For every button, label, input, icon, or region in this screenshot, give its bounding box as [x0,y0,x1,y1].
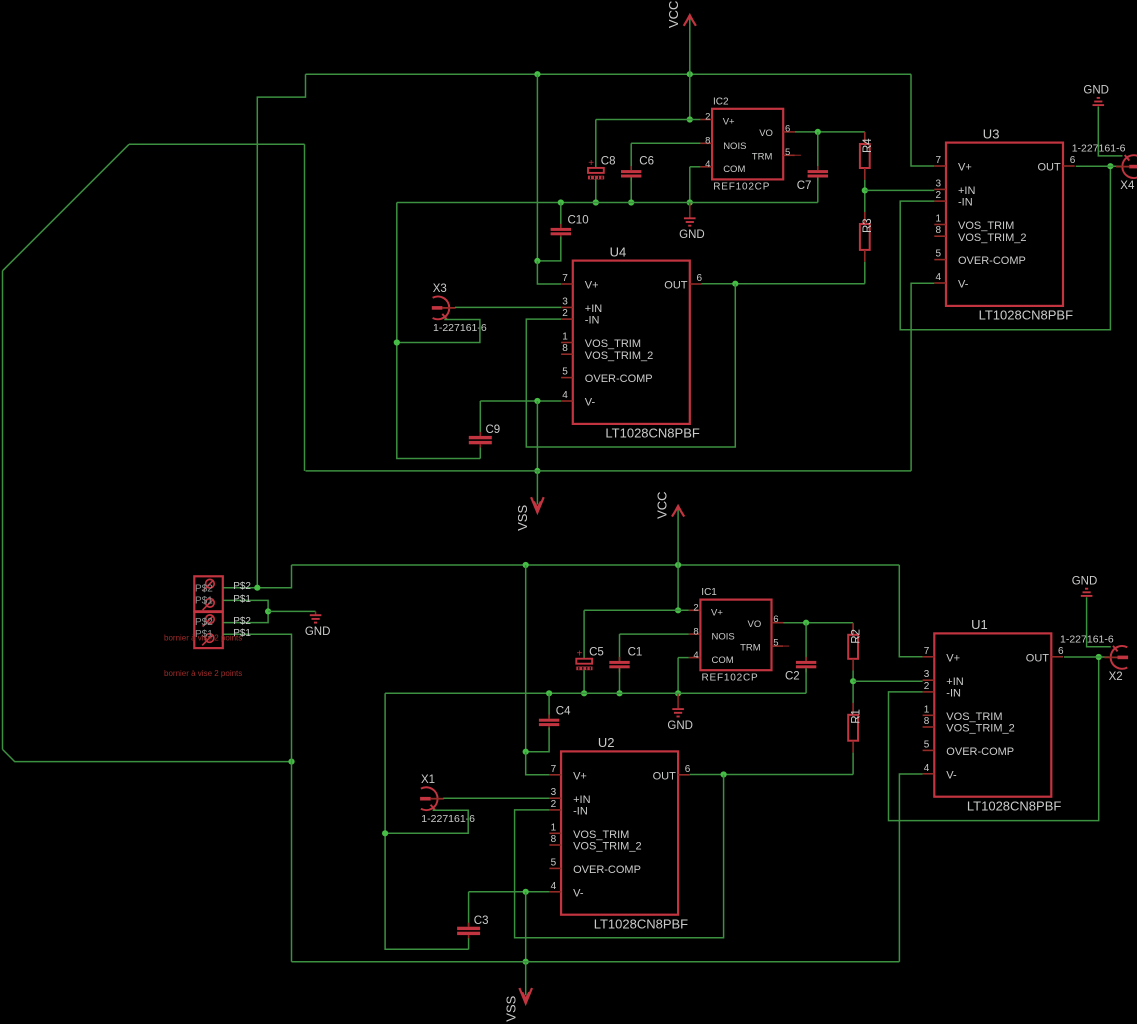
wire U4 OUT [702,283,865,285]
svg-text:NOIS: NOIS [712,632,735,643]
wire VCC rail to terminal block [257,74,305,588]
svg-text:VOS_TRIM_2: VOS_TRIM_2 [958,232,1026,244]
svg-text:R3: R3 [862,218,874,233]
svg-text:R2: R2 [850,629,862,644]
wire VO to C2 [805,623,807,661]
wire IC VO to R4 [795,131,865,133]
capacitor C6 [621,166,641,181]
capacitor C9 [469,432,492,448]
svg-text:6: 6 [773,614,778,625]
wire X3 to U4 +IN [443,797,549,799]
VCC supply symbol [684,13,696,26]
svg-text:OUT: OUT [653,770,677,782]
wire C7 to gnd bus [805,668,807,693]
resistor R3 [860,212,870,262]
wire VSS rail left edge [304,144,306,471]
wire X3 to U4 +IN [455,306,561,308]
junction shell/gnd drop [394,339,400,345]
wire VSS stem [525,962,527,996]
svg-text:2: 2 [551,799,557,810]
svg-text:OVER-COMP: OVER-COMP [958,255,1026,267]
wire NOIS to C1 [619,634,621,661]
svg-text:OUT: OUT [1037,162,1061,174]
svg-text:1-227161-6: 1-227161-6 [421,813,475,825]
svg-text:V+: V+ [723,117,735,128]
svg-text:C3: C3 [474,915,489,927]
svg-text:V+: V+ [958,162,972,174]
svg-text:8: 8 [924,716,930,727]
svg-text:X3: X3 [433,283,447,295]
junction VSS / terminal P$1 [288,759,294,765]
svg-text:V-: V- [946,769,957,781]
svg-text:P$2: P$2 [195,584,213,595]
svg-text:COM: COM [723,164,745,175]
svg-text:+IN: +IN [573,794,590,806]
svg-text:V+: V+ [711,607,723,618]
wire VCC drop [525,565,527,752]
wire VSS stem [536,471,538,505]
svg-text:U3: U3 [983,126,1000,141]
svg-text:REF102CP: REF102CP [702,672,759,683]
wire V+ to U2 pin7 [526,752,550,775]
svg-text:6: 6 [685,764,691,775]
svg-text:VOS_TRIM_2: VOS_TRIM_2 [585,350,653,362]
svg-text:GND: GND [1083,85,1109,97]
svg-text:6: 6 [697,273,703,284]
wire V- to VSS rail [536,401,538,471]
svg-text:1: 1 [924,704,930,715]
svg-text:C2: C2 [785,671,800,683]
svg-text:X2: X2 [1109,671,1123,683]
wire VCC to IC V+ [677,565,679,610]
connector X1 [420,787,444,810]
resistor R4 [860,132,870,180]
wire C8 to gnd bus [595,179,597,202]
svg-text:C5: C5 [589,647,604,659]
svg-text:X4: X4 [1120,180,1135,192]
svg-text:8: 8 [562,343,568,354]
wire U4 V- [480,400,561,402]
svg-text:2: 2 [924,681,930,692]
wire X3 shell to gnd [397,320,480,343]
wire VCC stem [677,508,679,565]
wire V- to C3 [468,892,470,927]
junction [546,690,552,696]
wire R3 to OUT rail [852,753,854,775]
wire VSS link to terminal [3,749,292,761]
svg-text:7: 7 [551,764,557,775]
resistor R2 [848,623,858,671]
svg-text:R1: R1 [850,709,862,724]
IC IC1 REF102CP voltage reference [689,600,790,671]
wire IC pin8 NOIS [620,633,689,635]
svg-text:IC2: IC2 [713,96,729,107]
ground GND (X4 shell) [1093,98,1105,105]
wire IC pin8 NOIS [631,142,700,144]
wire V+ to U4 pin7 [537,261,561,284]
wire IC pin4 COM [678,657,689,659]
VSS supply symbol [519,988,532,1003]
ground GND (X4 shell) [1081,589,1093,596]
svg-text:C6: C6 [639,156,654,168]
svg-text:-IN: -IN [946,688,961,700]
svg-text:LT1028CN8PBF: LT1028CN8PBF [979,308,1073,323]
svg-text:VCC: VCC [666,1,681,28]
junction V+ drop / C10 [523,749,529,755]
svg-text:2: 2 [936,190,942,201]
junction V- / VSS drop [523,889,529,895]
svg-text:VOS_TRIM_2: VOS_TRIM_2 [573,841,641,853]
svg-text:C8: C8 [601,156,616,168]
wire U4 V- [469,891,550,893]
capacitor C5 (polarized) [576,649,592,671]
svg-text:3: 3 [562,296,568,307]
ground GND (power entry) [310,611,322,622]
svg-text:V+: V+ [946,652,960,664]
svg-text:VSS: VSS [515,505,530,531]
svg-text:4: 4 [551,881,557,892]
svg-text:P$1: P$1 [233,594,251,605]
wire R4-R3 [852,671,854,704]
svg-text:8: 8 [693,626,698,637]
wire IC pin2 V+ [596,119,701,121]
svg-text:TRM: TRM [752,152,773,163]
junction VO / C7 [803,620,809,626]
svg-text:VO: VO [759,128,773,139]
wire VSS to bottom rail [291,762,293,962]
wire to C5 [583,610,585,658]
op-amp U2 LT1028CN8PBF [549,751,689,914]
wire R4-R3 [864,180,866,213]
wire VSS link horiz [129,143,305,145]
svg-text:LT1028CN8PBF: LT1028CN8PBF [967,799,1061,814]
svg-text:X1: X1 [421,774,435,786]
svg-text:C1: C1 [628,647,643,659]
junction [687,199,693,205]
junction divider [850,678,856,684]
wire C9 to gnd drop [468,938,470,949]
junction U3 OUT / feedback [1096,654,1102,660]
svg-text:+IN: +IN [958,185,975,197]
capacitor C2 [796,657,816,672]
wire bus to C4 [548,693,550,718]
junction [616,690,622,696]
junction [558,199,564,205]
svg-text:5: 5 [773,638,778,649]
svg-text:4: 4 [562,390,568,401]
svg-text:VOS_TRIM: VOS_TRIM [958,220,1014,232]
svg-text:C9: C9 [486,424,501,436]
svg-text:OVER-COMP: OVER-COMP [946,746,1014,758]
svg-text:4: 4 [705,159,710,170]
svg-text:+IN: +IN [946,676,963,688]
wire GND to X4 shell [1087,597,1111,646]
wire VSS rail [306,470,912,472]
svg-text:IC1: IC1 [701,587,717,598]
svg-text:1: 1 [936,214,942,225]
svg-text:P$1: P$1 [195,596,213,607]
svg-text:GND: GND [305,626,331,638]
svg-text:1: 1 [551,822,557,833]
wire R3 to OUT rail [864,262,866,284]
wire V- to VSS rail [525,892,527,962]
junction VCC rail / VCC symbol [687,71,693,77]
svg-text:4: 4 [924,763,930,774]
wire U3 OUT to X4 [1076,165,1121,167]
wire bus to C10 [560,203,562,228]
wire C10 to V+ drop [526,728,549,752]
svg-text:2: 2 [562,308,568,319]
wire P$1 to VSS [223,634,292,761]
wire U3 V- to VSS rail [899,774,922,962]
svg-text:OVER-COMP: OVER-COMP [585,373,653,385]
junction [593,199,599,205]
svg-text:P$2: P$2 [233,581,251,592]
svg-text:+IN: +IN [585,303,602,315]
svg-text:VO: VO [748,619,762,630]
svg-text:7: 7 [924,646,930,657]
svg-text:6: 6 [1070,155,1076,166]
svg-text:5: 5 [551,857,557,868]
capacitor C7 [808,166,828,181]
wire VCC top rail [306,73,912,75]
wire P$1/P$2 gnd tie [223,600,268,622]
junction IC V+ net [687,116,693,122]
junction V+ drop / C10 [534,258,540,264]
svg-text:3: 3 [551,787,557,798]
svg-text:-IN: -IN [958,197,973,209]
svg-text:NOIS: NOIS [723,141,746,152]
terminal block J2 (bornier 2 points) [194,612,223,648]
junction shell/gnd drop [382,830,388,836]
junction VCC feed [254,585,260,591]
capacitor C1 [609,657,629,672]
svg-text:C10: C10 [568,215,589,227]
connector X2 [1104,646,1128,669]
wire VCC drop [536,74,538,261]
wire to GND symbol [268,610,316,612]
svg-text:OUT: OUT [1026,652,1050,664]
svg-text:5: 5 [785,147,790,158]
wire U3 feedback loop [889,657,1099,821]
svg-text:P$1: P$1 [233,628,251,639]
wire VCC stem [689,17,691,74]
junction IC V+ net [675,607,681,613]
svg-text:8: 8 [705,136,710,147]
svg-text:bornier à vise 2 points: bornier à vise 2 points [164,669,242,678]
junction U4 feedback [732,281,738,287]
wire divider to U3 +IN [865,189,935,191]
svg-text:5: 5 [924,739,930,750]
svg-text:GND: GND [1072,575,1098,587]
junction gnd tie [265,608,271,614]
wire V- to C9 [479,401,481,436]
wire GND bus [385,692,806,694]
op-amp U1 LT1028CN8PBF [923,633,1063,796]
capacitor C8 (polarized) [588,158,604,180]
connector X3 [432,296,456,319]
svg-text:6: 6 [1058,646,1064,657]
wire VCC to IC V+ [689,74,691,119]
junction VO / C7 [815,129,821,135]
svg-text:VOS_TRIM_2: VOS_TRIM_2 [946,723,1014,735]
svg-text:V-: V- [958,279,969,291]
svg-text:COM: COM [712,655,734,666]
wire GND bus [397,202,818,204]
svg-text:GND: GND [679,229,705,241]
svg-text:8: 8 [551,834,557,845]
svg-text:C7: C7 [797,180,812,192]
wire X3 shell to gnd [385,810,468,833]
wire NOIS to C6 [630,143,632,170]
wire VCC top rail [292,564,900,566]
junction V- / VSS drop [534,398,540,404]
junction VCC rail / V+ drop [534,71,540,77]
svg-text:5: 5 [936,249,942,260]
svg-text:7: 7 [562,273,568,284]
wire C10 to V+ drop [537,237,560,261]
svg-text:V+: V+ [585,280,599,292]
op-amp U4 LT1028CN8PBF [561,261,701,424]
svg-text:U1: U1 [971,617,988,632]
wire VSS link diagonal [3,144,130,270]
wire VO to C7 [817,132,819,170]
op-amp U3 LT1028CN8PBF [934,143,1074,306]
wire C9 to gnd drop [479,448,481,459]
svg-text:LT1028CN8PBF: LT1028CN8PBF [605,426,699,441]
terminal block J1 (bornier 2 points) [194,576,223,611]
svg-text:U2: U2 [598,735,615,750]
svg-text:GND: GND [667,720,693,732]
wire C5 to gnd bus [583,670,585,693]
wire divider to U1 +IN [853,680,923,682]
svg-text:VOS_TRIM: VOS_TRIM [573,829,629,841]
svg-text:VOS_TRIM: VOS_TRIM [946,711,1002,723]
svg-text:1: 1 [562,332,568,343]
svg-text:8: 8 [936,225,942,236]
svg-text:VCC: VCC [655,491,670,518]
capacitor C10 [551,224,571,239]
svg-text:-IN: -IN [585,315,600,327]
capacitor C4 [539,715,559,730]
wire U4 OUT [690,774,853,776]
wire VCC rail to U1 V+ [899,565,922,657]
wire U3 V- to VSS rail [911,283,934,471]
svg-text:-IN: -IN [573,806,588,818]
svg-text:LT1028CN8PBF: LT1028CN8PBF [594,917,688,932]
junction divider [862,187,868,193]
svg-text:V-: V- [573,887,584,899]
wire IC pin4 COM [690,166,701,168]
wire C7 to gnd bus [817,178,819,203]
svg-text:U4: U4 [610,244,627,259]
wire VSS rail [292,961,900,963]
svg-text:REF102CP: REF102CP [713,182,770,193]
VSS supply symbol [531,497,544,512]
svg-text:R4: R4 [862,138,874,153]
wire U3 feedback loop [900,166,1110,330]
svg-text:2: 2 [705,112,710,123]
svg-text:V+: V+ [573,770,587,782]
wire IC pin2 V+ [584,609,689,611]
svg-text:3: 3 [924,669,930,680]
svg-text:TRM: TRM [740,642,761,653]
junction VCC rail / V+ drop [523,562,529,568]
svg-text:1-227161-6: 1-227161-6 [433,322,487,334]
junction VSS rail [523,959,529,965]
svg-text:OVER-COMP: OVER-COMP [573,864,641,876]
svg-text:7: 7 [936,155,942,166]
svg-text:VOS_TRIM: VOS_TRIM [585,338,641,350]
junction U3 OUT / feedback [1107,163,1113,169]
svg-text:VSS: VSS [503,995,518,1021]
IC IC2 REF102CP voltage reference [700,109,801,180]
svg-text:OUT: OUT [664,280,688,292]
junction [675,690,681,696]
capacitor C3 [457,923,480,939]
wire gnd bus drop to C3 [385,693,469,949]
wire COM to gnd bus [689,167,691,203]
junction U4 feedback [721,771,727,777]
svg-text:P$2: P$2 [233,616,251,627]
ground GND (IC COM) [684,203,696,226]
VCC supply symbol [672,504,684,517]
svg-text:6: 6 [785,123,790,134]
wire C1 to gnd bus [619,668,621,693]
wire U1 OUT to X2 [1064,656,1109,658]
junction VCC rail / VCC symbol [675,562,681,568]
wire VSS link left edge [2,271,4,750]
svg-text:V-: V- [585,397,596,409]
junction VSS rail [534,468,540,474]
svg-text:C4: C4 [556,706,571,718]
resistor R1 [848,703,858,753]
svg-text:4: 4 [936,272,942,283]
wire P$2 to VCC rail [223,565,292,588]
wire C6 to gnd bus [630,177,632,202]
svg-text:4: 4 [693,650,698,661]
wire U4 feedback loop [515,775,724,938]
wire COM to gnd bus [677,658,679,694]
wire VCC rail to U3 V+ [911,74,934,166]
svg-text:5: 5 [562,367,568,378]
wire gnd bus drop to C9 [397,203,481,459]
connector X4 [1116,155,1137,178]
wire GND to X4 shell [1098,107,1122,156]
svg-text:2: 2 [693,603,698,614]
junction [581,690,587,696]
junction [628,199,634,205]
wire to C8 [595,120,597,168]
wire U4 feedback loop [526,284,735,447]
svg-text:3: 3 [936,178,942,189]
wire IC VO to R2 [783,622,853,624]
svg-text:P$2: P$2 [195,617,213,628]
ground GND (IC COM) [672,693,684,716]
